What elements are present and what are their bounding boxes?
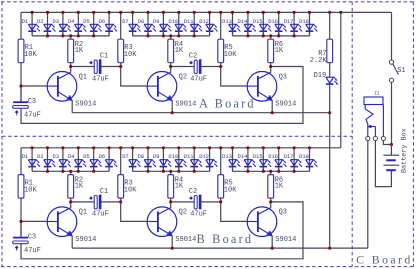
svg-text:D13: D13 — [222, 154, 232, 160]
svg-text:D7: D7 — [122, 154, 128, 160]
label Q1 S9014 value B board — [75, 236, 96, 244]
wire feedback loop Q3 collector to C3 A board — [21, 67, 303, 124]
label D3 A board — [53, 19, 59, 25]
svg-text:D10: D10 — [168, 19, 178, 25]
svg-text:C2: C2 — [189, 53, 197, 61]
wire emitter ground rail A board — [72, 112, 330, 114]
transistor Q1 S9014 B board — [21, 202, 77, 248]
svg-text:S9014: S9014 — [75, 101, 96, 109]
battery BT1 — [383, 145, 399, 171]
label C3 A board — [24, 98, 41, 119]
svg-text:S9014: S9014 — [175, 101, 196, 109]
LED D18 A board — [306, 12, 318, 36]
LED D4 B board — [75, 148, 87, 172]
svg-text:D8: D8 — [138, 154, 144, 160]
transistor Q2 S9014 B board — [121, 202, 177, 248]
LED D16 B board — [275, 148, 287, 172]
svg-text:D14: D14 — [238, 19, 248, 25]
resistor R3 10K B board — [118, 148, 124, 202]
svg-text:D11: D11 — [184, 154, 194, 160]
label Q2 B board — [179, 209, 187, 217]
wire emitter ground rail B board — [72, 247, 368, 249]
svg-text:A Board: A Board — [199, 97, 256, 111]
label Q3 B board — [279, 209, 287, 217]
svg-text:D2: D2 — [37, 19, 43, 25]
svg-text:D9: D9 — [153, 19, 159, 25]
label D2 A board — [37, 19, 43, 25]
LED D17 A board — [290, 12, 302, 36]
svg-text:1K: 1K — [175, 47, 184, 55]
svg-text:10K: 10K — [124, 186, 137, 194]
svg-text:C Board: C Board — [356, 252, 412, 266]
LED D13 B board — [229, 148, 241, 172]
svg-text:1K: 1K — [175, 183, 184, 191]
label R2 B board — [75, 176, 84, 190]
capacitor C2 47uF B board — [171, 195, 221, 209]
wire LED cathode bus group B6 — [133, 170, 210, 172]
label R5 A board — [224, 44, 237, 59]
svg-text:D8: D8 — [138, 19, 144, 25]
svg-text:D11: D11 — [184, 19, 194, 25]
label R1 B board — [24, 179, 37, 194]
wire S1 supply from top rail — [391, 12, 393, 60]
svg-text:D10: D10 — [168, 154, 178, 160]
LED D13 A board — [229, 12, 241, 36]
capacitor C1 47uF A board — [71, 60, 121, 74]
transistor Q3 S9014 B board — [221, 202, 277, 248]
svg-text:D18: D18 — [299, 154, 309, 160]
svg-text:1K: 1K — [75, 47, 84, 55]
svg-text:S9014: S9014 — [75, 236, 96, 244]
LED D5 A board — [90, 12, 102, 36]
svg-text:Battery Box: Battery Box — [401, 128, 409, 173]
resistor R1 10K B board — [18, 175, 24, 199]
label D18 A board — [299, 19, 309, 25]
svg-text:2.2K: 2.2K — [310, 57, 328, 65]
wire V+ top rail B board — [21, 147, 341, 149]
label D9 B board — [153, 154, 159, 160]
wire LED cathode bus group A0 — [32, 35, 109, 37]
wire LED cathode bus group A6 — [133, 35, 210, 37]
label D13 B board — [222, 154, 232, 160]
LED D6 A board — [105, 12, 117, 36]
label D16 B board — [268, 154, 278, 160]
LED D12 B board — [206, 148, 218, 172]
wire LED cathode bus group B0 — [32, 170, 109, 172]
label D8 A board — [138, 19, 144, 25]
label D6 B board — [99, 154, 105, 160]
resistor R5 10K B board — [218, 148, 224, 202]
svg-text:D9: D9 — [153, 154, 159, 160]
svg-text:D4: D4 — [68, 154, 74, 160]
dashed divider between A Board and B Board — [2, 135, 352, 137]
svg-text:D7: D7 — [122, 19, 128, 25]
svg-text:D4: D4 — [68, 19, 74, 25]
dashed divider between A/B Boards and C Board — [351, 2, 353, 267]
vibration switch I1 body — [364, 97, 383, 105]
svg-text:1K: 1K — [275, 47, 284, 55]
LED D7 A board — [129, 12, 141, 36]
transistor Q3 S9014 A board — [221, 67, 277, 113]
svg-text:Q1: Q1 — [79, 73, 87, 81]
vibration switch I1 wiper arrow — [367, 125, 375, 136]
board outline dashed border top — [1, 1, 414, 3]
wire S1 to battery plus node — [391, 82, 393, 144]
wire V+ top rail A board — [21, 11, 392, 13]
label Q3 A board — [279, 73, 287, 81]
wire ground line D19 to B board emitter rail — [329, 84, 331, 248]
svg-text:I1: I1 — [374, 91, 380, 97]
wire feedback loop Q3 collector to C3 B board — [21, 202, 303, 259]
LED D6 B board — [105, 148, 117, 172]
label D11 B board — [184, 154, 194, 160]
vibration switch I1 right lead — [382, 105, 384, 137]
label C3 B board — [24, 234, 41, 255]
LED D7 B board — [129, 148, 141, 172]
label Q2 S9014 value B board — [175, 236, 196, 244]
label D1 B board — [22, 154, 28, 160]
label R5 B board — [224, 179, 237, 194]
label D12 B board — [199, 154, 209, 160]
label D12 A board — [199, 19, 209, 25]
switch S1 — [389, 60, 398, 82]
label Q3 S9014 value A board — [275, 101, 296, 109]
capacitor C3 47uF B board — [13, 221, 29, 250]
label R6 B board — [275, 176, 284, 190]
label C2 B board — [189, 188, 207, 219]
label R7 2.2K value — [310, 57, 328, 65]
svg-text:D17: D17 — [284, 154, 294, 160]
label Q2 S9014 value A board — [175, 101, 196, 109]
svg-text:1K: 1K — [75, 183, 84, 191]
svg-text:10K: 10K — [124, 51, 137, 59]
wire V+ line A rail to B rail — [340, 12, 342, 147]
svg-text:D14: D14 — [238, 154, 248, 160]
svg-text:D2: D2 — [37, 154, 43, 160]
label Q1 A board — [79, 73, 87, 81]
LED D2 A board — [44, 12, 56, 36]
svg-text:D1: D1 — [22, 19, 28, 25]
svg-text:D3: D3 — [53, 19, 59, 25]
LED D8 B board — [144, 148, 156, 172]
label C1 A board — [92, 53, 109, 84]
svg-text:D1: D1 — [22, 154, 28, 160]
label A Board title — [199, 97, 256, 111]
svg-text:47uF: 47uF — [92, 211, 109, 219]
wire LED cathode bus group B12 — [233, 170, 310, 172]
capacitor C2 47uF A board — [171, 60, 221, 74]
LED D15 B board — [260, 148, 272, 172]
LED D10 B board — [175, 148, 187, 172]
svg-text:Q3: Q3 — [279, 209, 287, 217]
capacitor C1 47uF B board — [71, 195, 121, 209]
label D4 A board — [68, 19, 74, 25]
wire LED cathode bus group A12 — [233, 35, 310, 37]
svg-text:D12: D12 — [199, 154, 209, 160]
label D18 B board — [299, 154, 309, 160]
svg-text:D16: D16 — [268, 154, 278, 160]
svg-text:D6: D6 — [99, 154, 105, 160]
LED D3 B board — [59, 148, 71, 172]
label R2 A board — [75, 41, 84, 55]
resistor R3 10K A board — [118, 12, 124, 66]
resistor R2 1K A board — [68, 36, 74, 67]
resistor R4 1K B board — [168, 171, 174, 202]
label C2 A board — [189, 53, 207, 84]
transistor Q2 S9014 A board — [121, 67, 177, 113]
label S1 — [397, 67, 405, 75]
LED D11 B board — [190, 148, 202, 172]
LED D4 A board — [75, 12, 87, 36]
resistor R6 1K A board — [268, 36, 274, 67]
capacitor C3 47uF A board — [13, 86, 29, 115]
LED D9 B board — [160, 148, 172, 172]
label D6 A board — [99, 19, 105, 25]
board outline dashed border bottom — [1, 266, 414, 268]
svg-text:C3: C3 — [28, 98, 36, 106]
label D10 B board — [168, 154, 178, 160]
wire left supply rail B board — [20, 148, 22, 237]
LED D1 B board — [28, 148, 40, 172]
resistor R4 1K A board — [168, 36, 174, 67]
LED D9 A board — [160, 12, 172, 36]
label R3 B board — [124, 179, 137, 194]
svg-text:D6: D6 — [99, 19, 105, 25]
label R4 A board — [175, 41, 184, 55]
svg-text:D5: D5 — [83, 154, 89, 160]
label R4 B board — [175, 176, 184, 190]
svg-text:1K: 1K — [275, 183, 284, 191]
svg-text:D17: D17 — [284, 19, 294, 25]
svg-text:B Board: B Board — [197, 232, 254, 246]
LED D12 A board — [206, 12, 218, 36]
label D16 A board — [268, 19, 278, 25]
label D17 A board — [284, 19, 294, 25]
svg-text:10K: 10K — [24, 51, 37, 59]
label D10 A board — [168, 19, 178, 25]
label D19 — [314, 72, 327, 80]
label D14 A board — [238, 19, 248, 25]
svg-text:D12: D12 — [199, 19, 209, 25]
svg-text:S9014: S9014 — [275, 101, 296, 109]
label D14 B board — [238, 154, 248, 160]
label D15 A board — [253, 19, 263, 25]
wire I1 pin3 to battery plus node — [383, 141, 391, 145]
svg-text:Q2: Q2 — [179, 209, 187, 217]
label D1 A board — [22, 19, 28, 25]
junction battery plus node — [390, 143, 393, 146]
resistor R5 10K A board — [218, 12, 224, 66]
svg-text:Q2: Q2 — [179, 73, 187, 81]
svg-text:D15: D15 — [253, 154, 263, 160]
svg-text:D13: D13 — [222, 19, 232, 25]
LED D18 B board — [306, 148, 318, 172]
svg-text:D3: D3 — [53, 154, 59, 160]
resistor R1 10K A board — [18, 39, 24, 63]
svg-text:Q1: Q1 — [79, 209, 87, 217]
svg-text:47uF: 47uF — [24, 247, 41, 255]
label D5 B board — [83, 154, 89, 160]
svg-text:S9014: S9014 — [275, 236, 296, 244]
label D13 A board — [222, 19, 232, 25]
label B Board title — [197, 232, 254, 246]
label R6 A board — [275, 41, 284, 55]
label D2 B board — [37, 154, 43, 160]
LED D2 B board — [44, 148, 56, 172]
wire I1 pin1 to ground rail — [367, 141, 369, 249]
LED D15 A board — [260, 12, 272, 36]
label Q3 S9014 value B board — [275, 236, 296, 244]
board outline dashed border right — [412, 2, 414, 267]
label Q1 B board — [79, 209, 87, 217]
terminal circle I1 pin2 — [373, 136, 377, 140]
label Battery Box — [401, 128, 409, 173]
terminal circle I1 pin1 — [366, 136, 370, 140]
svg-text:D19: D19 — [314, 72, 327, 80]
label D3 B board — [53, 154, 59, 160]
label D17 B board — [284, 154, 294, 160]
label C1 B board — [92, 188, 109, 219]
svg-text:10K: 10K — [224, 51, 237, 59]
svg-text:S9014: S9014 — [175, 236, 196, 244]
LED D11 A board — [190, 12, 202, 36]
LED D16 A board — [275, 12, 287, 36]
LED D14 B board — [244, 148, 256, 172]
label D4 B board — [68, 154, 74, 160]
LED D14 A board — [244, 12, 256, 36]
diode D19 LED — [326, 77, 338, 85]
svg-text:10K: 10K — [24, 186, 37, 194]
label R7 — [318, 50, 326, 58]
resistor R2 1K B board — [68, 171, 74, 202]
svg-text:Q3: Q3 — [279, 73, 287, 81]
resistor R7 2.2K — [327, 12, 333, 77]
terminal circle I1 pin3 — [381, 136, 385, 140]
junction dots A board — [19, 11, 342, 115]
label Q1 S9014 value A board — [75, 101, 96, 109]
label D7 A board — [122, 19, 128, 25]
svg-text:47uF: 47uF — [92, 75, 109, 83]
svg-text:S1: S1 — [397, 67, 405, 75]
vibration switch I1 left contact — [365, 105, 373, 137]
label R1 A board — [24, 44, 37, 59]
svg-text:D5: D5 — [83, 19, 89, 25]
svg-text:D15: D15 — [253, 19, 263, 25]
label D7 B board — [122, 154, 128, 160]
label D5 A board — [83, 19, 89, 25]
LED D5 B board — [90, 148, 102, 172]
label D11 A board — [184, 19, 194, 25]
label D9 A board — [153, 19, 159, 25]
board outline dashed border left — [1, 2, 3, 267]
LED D3 A board — [59, 12, 71, 36]
svg-text:10K: 10K — [224, 186, 237, 194]
resistor R6 1K B board — [268, 171, 274, 202]
svg-text:C1: C1 — [100, 53, 108, 61]
label R3 A board — [124, 44, 137, 59]
LED D8 A board — [144, 12, 156, 36]
svg-text:D18: D18 — [299, 19, 309, 25]
label D8 B board — [138, 154, 144, 160]
label I1 — [374, 91, 380, 97]
svg-text:47uF: 47uF — [190, 211, 207, 219]
wire left supply rail A board — [20, 12, 22, 101]
wire I1 pin2 to battery minus — [375, 141, 391, 187]
svg-text:C3: C3 — [28, 234, 36, 242]
LED D17 B board — [290, 148, 302, 172]
svg-text:C2: C2 — [189, 188, 197, 196]
svg-text:47uF: 47uF — [24, 112, 41, 120]
svg-text:C1: C1 — [100, 188, 108, 196]
LED D1 A board — [28, 12, 40, 36]
transistor Q1 S9014 A board — [21, 67, 77, 113]
svg-text:47uF: 47uF — [190, 75, 207, 83]
label D15 B board — [253, 154, 263, 160]
junction dots B board — [19, 146, 331, 250]
label C Board title — [356, 252, 412, 266]
LED D10 A board — [175, 12, 187, 36]
svg-text:D16: D16 — [268, 19, 278, 25]
label Q2 A board — [179, 73, 187, 81]
